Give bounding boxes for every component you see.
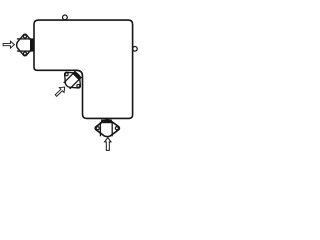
arrow into bottom port	[105, 138, 111, 151]
bolt hole bottom	[23, 52, 26, 55]
arrow into left port	[3, 41, 14, 48]
neck (black)	[30, 38, 34, 51]
arrow into corner port	[54, 85, 67, 98]
bolt hole top	[23, 35, 26, 38]
left port P1	[17, 34, 35, 56]
bore lines	[99, 122, 101, 136]
bore lines	[64, 73, 74, 83]
bottom port P3	[95, 120, 119, 137]
bore lines	[17, 38, 31, 40]
small circle on right edge	[133, 46, 138, 51]
small circle on top edge	[63, 15, 68, 20]
corner port P2 (45 deg)	[59, 67, 85, 93]
neck (black)	[101, 120, 112, 124]
bolt hole NW	[65, 72, 69, 76]
bolt hole SE	[76, 84, 80, 88]
bolt hole left	[96, 127, 99, 130]
flange F1	[17, 34, 34, 56]
body L-shaped outline	[34, 20, 133, 118]
flange F2	[59, 67, 85, 93]
flange F3	[95, 120, 119, 137]
bolt hole right	[115, 127, 118, 130]
neck (black)	[72, 71, 82, 81]
